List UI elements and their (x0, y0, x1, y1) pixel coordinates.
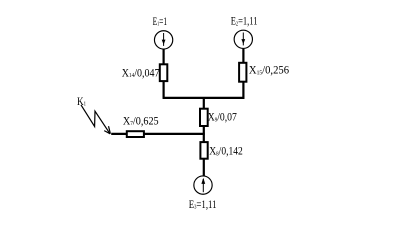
label E3=1,11 (189, 199, 217, 211)
label K1 (77, 96, 86, 108)
label E1=1 (153, 15, 168, 28)
source U1 circle (E1) (154, 31, 172, 49)
fault arrow K1 (lightning bolt) (81, 105, 110, 134)
resistor X14 (left box) (160, 64, 168, 81)
source U2 arrow (down) (241, 33, 245, 46)
svg-text:X8/0,142: X8/0,142 (209, 146, 242, 158)
resistor X9 (middle upper box) (200, 109, 208, 126)
source U1 arrow (down) (162, 33, 166, 46)
wire middle vertical (bus to E3) (203, 98, 205, 176)
svg-text:X7/0,625: X7/0,625 (123, 115, 159, 128)
svg-text:E3=1,11: E3=1,11 (189, 199, 217, 211)
svg-text:X14/0,047: X14/0,047 (122, 67, 160, 80)
svg-text:E1=1: E1=1 (153, 15, 168, 28)
wire right branch vertical (E2 to bus) (242, 49, 244, 99)
source U3 arrow (up) (201, 178, 205, 192)
resistor X7 (horizontal box) (127, 131, 144, 137)
label X14/0,047 (122, 67, 160, 80)
label X9/0,07 (208, 112, 237, 124)
source U3 circle (E3) (194, 176, 212, 194)
wire bus horizontal (163, 97, 245, 99)
source U2 circle (E2) (234, 30, 252, 48)
wire fault branch horizontal (K1 to node) (111, 133, 205, 135)
svg-text:K1: K1 (77, 96, 86, 108)
label X7/0,625 (123, 115, 159, 128)
wire left branch vertical (E1 to bus) (163, 49, 165, 99)
label E2=1,11 (231, 16, 258, 29)
svg-text:X9/0,07: X9/0,07 (208, 112, 237, 124)
label X8/0,142 (209, 146, 242, 158)
svg-text:X15/0,256: X15/0,256 (249, 64, 290, 76)
label X15/0,256 (249, 64, 290, 76)
resistor X8 (middle lower box) (200, 142, 207, 159)
resistor X15 (right box) (239, 63, 246, 82)
svg-text:E2=1,11: E2=1,11 (231, 16, 258, 29)
